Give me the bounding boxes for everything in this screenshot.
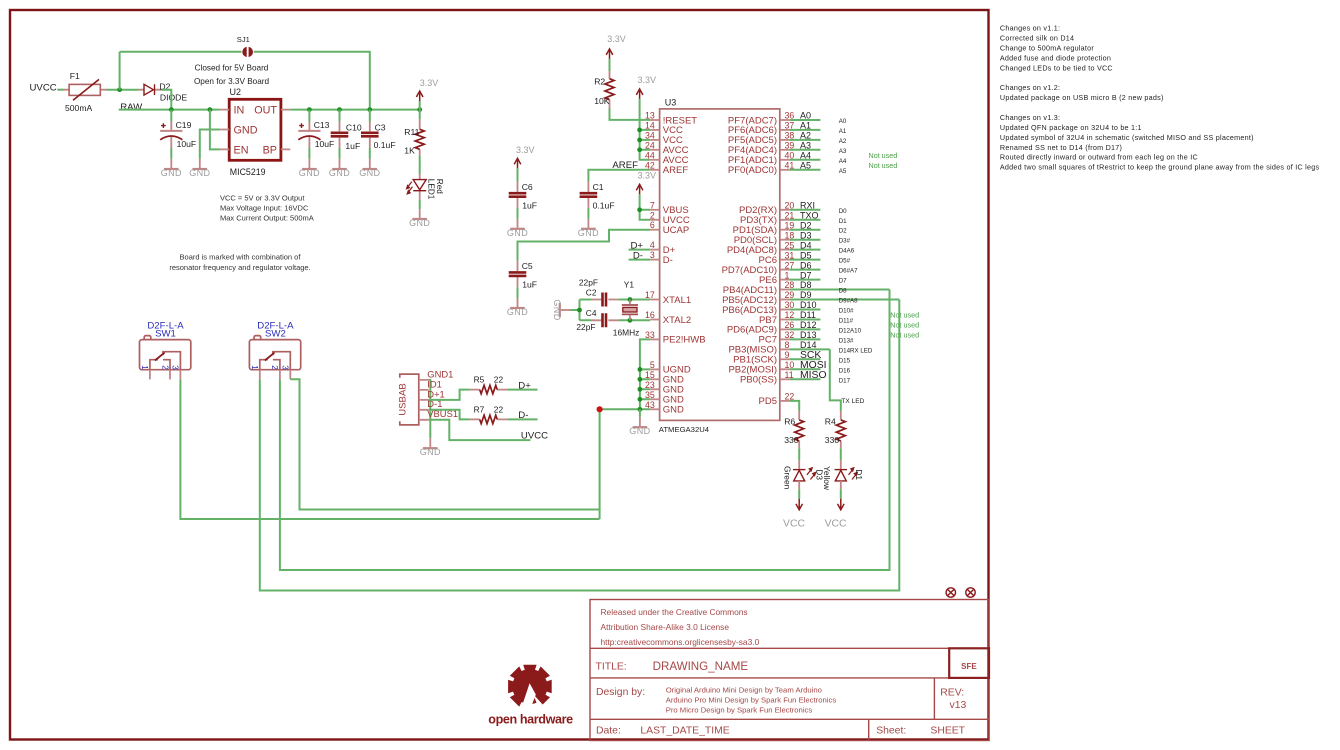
svg-text:EN: EN xyxy=(234,144,249,156)
svg-text:Original Arduino Mini Design b: Original Arduino Mini Design by Team Ard… xyxy=(666,686,822,695)
capacitor C4 stubs xyxy=(591,319,619,321)
resistor R7 stubs xyxy=(470,418,508,420)
wire VBUS1 to UVCC xyxy=(429,420,531,440)
switch SW2 lever xyxy=(265,353,275,361)
svg-text:D7: D7 xyxy=(800,270,812,280)
svg-text:v13: v13 xyxy=(950,700,967,711)
capacitor C13 plus sign xyxy=(299,123,304,128)
svg-text:D15: D15 xyxy=(839,357,851,364)
wire stubs VCC rows xyxy=(640,130,651,150)
svg-text:39: 39 xyxy=(785,141,795,151)
resistor R7 zigzag xyxy=(480,415,498,423)
svg-text:C4: C4 xyxy=(586,308,597,318)
svg-text:40: 40 xyxy=(785,151,795,161)
svg-text:D-: D- xyxy=(518,410,528,421)
svg-text:9: 9 xyxy=(785,350,790,360)
junction VBUS xyxy=(637,207,642,212)
svg-text:Renamed SS net to D14 (from D1: Renamed SS net to D14 (from D17) xyxy=(1000,143,1122,152)
resistor R6 stubs xyxy=(798,411,800,449)
wire 3.3V to VBUS/UVCC xyxy=(640,194,651,220)
svg-text:1uF: 1uF xyxy=(522,200,537,210)
capacitor C19 wires xyxy=(170,110,172,159)
resistor R11 pin stubs xyxy=(419,119,421,218)
svg-text:31: 31 xyxy=(785,250,795,260)
wire D+1 to R5 xyxy=(429,390,470,400)
U3 left pin 13 !RESET xyxy=(650,119,659,121)
U3 right pin 40 PF1(ADC1) net A4 xyxy=(780,159,790,161)
svg-text:Max Voltage Input: 16VDC: Max Voltage Input: 16VDC xyxy=(220,203,309,212)
U3 left pin 34 VCC xyxy=(650,139,659,141)
svg-text:VCC: VCC xyxy=(783,518,805,529)
junction AVCC 24 xyxy=(637,147,642,152)
LED D3 light arrows xyxy=(807,468,816,480)
U3 left pin 33 PE2!HWB xyxy=(650,338,659,340)
wire LED D3 to VCC arrow xyxy=(798,481,800,489)
U3 left pin 17 XTAL1 xyxy=(650,299,659,301)
crossed circle marker 2 xyxy=(966,588,975,597)
svg-text:D13: D13 xyxy=(800,330,817,340)
U3 left pin 5 UGND xyxy=(650,368,659,370)
svg-text:D2: D2 xyxy=(800,220,812,230)
svg-text:D17: D17 xyxy=(839,377,851,384)
ground under C5 xyxy=(507,307,528,317)
U2 pin stubs xyxy=(220,110,290,150)
svg-text:A3: A3 xyxy=(800,141,811,151)
svg-text:22pF: 22pF xyxy=(576,322,595,332)
wire SJ1 loop top left xyxy=(120,51,242,53)
U3 left pin 35 GND xyxy=(650,398,659,400)
svg-text:36: 36 xyxy=(785,111,795,121)
svg-text:3: 3 xyxy=(171,365,180,370)
svg-text:RAW: RAW xyxy=(120,102,143,113)
crystal Y1 junction bottom xyxy=(628,318,633,323)
svg-text:22pF: 22pF xyxy=(579,278,598,288)
svg-text:D4: D4 xyxy=(800,240,812,250)
wire C2 to XTAL1 xyxy=(619,299,651,301)
wire gnd to C2/C4 xyxy=(571,300,592,321)
svg-text:A0: A0 xyxy=(839,118,847,125)
USB connector body xyxy=(400,374,419,425)
svg-text:Attribution Share-Alike 3.0 Li: Attribution Share-Alike 3.0 License xyxy=(601,622,730,632)
svg-text:Arduino Pro Mini Design by Spa: Arduino Pro Mini Design by Spark Fun Ele… xyxy=(666,695,837,704)
title block divider sheet xyxy=(868,719,870,740)
crossed circle marker 1 xyxy=(946,588,955,597)
U3 left pin 3 D- xyxy=(650,259,659,261)
junction RAW/C19 xyxy=(169,107,174,112)
svg-text:U3: U3 xyxy=(665,98,677,108)
svg-text:16MHz: 16MHz xyxy=(613,327,640,337)
capacitor C19 pin stubs xyxy=(171,122,200,169)
capacitor C4 plates xyxy=(603,313,607,327)
U3 pin 22 PD5 xyxy=(780,400,790,402)
svg-text:R11: R11 xyxy=(404,127,419,137)
resistor R4 stubs xyxy=(840,411,842,449)
resistor R11 wires xyxy=(419,110,421,210)
wire R5 to D+ label xyxy=(507,389,537,391)
svg-text:16: 16 xyxy=(645,310,655,320)
svg-text:RXI: RXI xyxy=(800,201,815,211)
svg-text:U2: U2 xyxy=(230,87,242,97)
U3 right pin 27 PD7(ADC10) net D6 xyxy=(780,269,790,271)
capacitor C3 plates xyxy=(361,133,379,137)
svg-text:UVCC: UVCC xyxy=(521,431,548,442)
svg-text:3: 3 xyxy=(281,365,290,370)
svg-text:UCAP: UCAP xyxy=(663,225,689,236)
svg-text:C19: C19 xyxy=(176,120,192,130)
title block divider license/title xyxy=(590,647,989,649)
resistor R6 zigzag xyxy=(795,420,804,441)
LED1 light arrows xyxy=(407,182,413,194)
wire D+ xyxy=(629,249,651,251)
svg-text:SJ1: SJ1 xyxy=(237,35,250,44)
svg-text:Green: Green xyxy=(782,466,792,490)
svg-text:D0: D0 xyxy=(839,208,847,215)
wire F1 to D2 xyxy=(107,89,139,91)
svg-text:A1: A1 xyxy=(839,128,847,135)
capacitor C19 plus sign xyxy=(161,123,166,128)
svg-text:USBAB: USBAB xyxy=(398,383,409,416)
svg-text:XTAL2: XTAL2 xyxy=(663,315,691,326)
svg-text:C10: C10 xyxy=(346,122,362,132)
U3 right pin 11 PB0(SS) net MISO xyxy=(780,378,790,380)
svg-text:A0: A0 xyxy=(800,111,811,121)
resistor R2 pin stubs xyxy=(609,71,611,108)
capacitor C5 pin stubs xyxy=(517,261,519,307)
capacitor C10 wires xyxy=(339,110,341,159)
junction GND15 xyxy=(638,377,643,382)
svg-text:PF0(ADC0): PF0(ADC0) xyxy=(728,165,777,176)
capacitor C1 plates xyxy=(580,193,598,197)
wire SW2 pin2 long net xyxy=(280,290,890,571)
U3 left pin 15 GND xyxy=(650,378,659,380)
svg-text:Corrected silk on D14: Corrected silk on D14 xyxy=(1000,34,1074,43)
U3 left pin 16 XTAL2 xyxy=(650,319,659,321)
svg-text:10uF: 10uF xyxy=(315,139,335,149)
U3 right pin 8 PB3(MISO) net D14 xyxy=(780,348,790,350)
svg-text:330: 330 xyxy=(825,435,840,445)
ground under C10 xyxy=(329,168,350,178)
svg-text:GND: GND xyxy=(552,299,562,320)
svg-text:D-: D- xyxy=(663,255,673,266)
capacitor C5 wire xyxy=(517,287,519,298)
svg-text:D16: D16 xyxy=(839,367,851,374)
capacitor C10 plates xyxy=(331,133,349,137)
svg-text:Updated package on USB micro B: Updated package on USB micro B (2 new pa… xyxy=(1000,93,1164,102)
svg-text:8: 8 xyxy=(785,340,790,350)
svg-text:330: 330 xyxy=(784,435,799,445)
IC U3 box xyxy=(660,109,780,421)
svg-text:1uF: 1uF xyxy=(345,141,360,151)
svg-text:PD5: PD5 xyxy=(759,396,777,407)
U3 right pin 25 PD4(ADC8) net D4 xyxy=(780,249,790,251)
svg-text:D4A6: D4A6 xyxy=(839,248,855,255)
wire USB GND1 down xyxy=(429,380,431,438)
supply 3.3V arrow above R2 xyxy=(606,49,613,59)
svg-text:R7: R7 xyxy=(474,404,485,414)
svg-text:Changed LEDs to be tied to VCC: Changed LEDs to be tied to VCC xyxy=(1000,63,1113,72)
svg-text:IN: IN xyxy=(234,105,245,117)
svg-text:D8: D8 xyxy=(800,280,812,290)
supply 3.3V arrow above R11 xyxy=(416,91,423,101)
switch SW1 pin stubs xyxy=(150,370,181,380)
svg-text:Not used: Not used xyxy=(890,321,919,330)
svg-text:D3: D3 xyxy=(800,230,812,240)
svg-text:25: 25 xyxy=(785,240,795,250)
wire RAW net xyxy=(119,109,220,111)
wire SW2 pin1 long net xyxy=(260,300,900,591)
svg-text:C2: C2 xyxy=(586,287,597,297)
resistor R5 zigzag xyxy=(480,385,498,393)
svg-text:Closed for 5V Board: Closed for 5V Board xyxy=(195,63,269,72)
svg-text:5: 5 xyxy=(650,360,655,370)
supply 3.3V arrow above VCC pins xyxy=(636,89,643,99)
svg-text:11: 11 xyxy=(785,370,794,380)
svg-text:D11: D11 xyxy=(800,310,816,320)
svg-text:C6: C6 xyxy=(522,182,533,192)
svg-text:3.3V: 3.3V xyxy=(516,145,535,155)
capacitor C2 plates xyxy=(603,293,607,307)
crystal Y1 symbol xyxy=(622,305,638,314)
capacitor C5 plates xyxy=(509,272,527,276)
wire GND bus to U3 xyxy=(600,408,651,410)
svg-text:D10#: D10# xyxy=(839,308,854,315)
capacitor C6 wires xyxy=(517,168,519,219)
ground rotated left of crystal xyxy=(552,299,562,320)
svg-text:Y1: Y1 xyxy=(624,280,635,290)
svg-text:7: 7 xyxy=(650,200,655,210)
U3 left pin 14 VCC xyxy=(650,129,659,131)
capacitor C3 wires xyxy=(369,110,371,159)
svg-text:A2: A2 xyxy=(839,138,847,145)
svg-text:C1: C1 xyxy=(593,182,604,192)
svg-text:D14: D14 xyxy=(800,340,817,350)
U3 right pin 28 PB4(ADC11) net D8 xyxy=(780,289,790,291)
capacitor C6 plates xyxy=(509,193,527,197)
supply VCC arrow below D1 xyxy=(838,499,845,510)
svg-text:10: 10 xyxy=(785,360,795,370)
regulator U2 box xyxy=(229,99,281,160)
svg-text:R4: R4 xyxy=(825,417,836,427)
ground under USB xyxy=(420,447,441,457)
svg-text:D6: D6 xyxy=(800,260,812,270)
U3 right pin 36 PF7(ADC7) net A0 xyxy=(780,119,790,121)
svg-text:XTAL1: XTAL1 xyxy=(663,295,691,306)
svg-text:3: 3 xyxy=(650,250,655,260)
wire R6 to LED D3 xyxy=(798,448,800,460)
switch SW1 body xyxy=(140,336,191,370)
svg-text:Not used: Not used xyxy=(890,330,919,339)
U3 right pin 38 PF5(ADC5) net A2 xyxy=(780,139,790,141)
junction C3/SJ1 xyxy=(367,107,372,112)
svg-text:Not used: Not used xyxy=(869,161,898,170)
svg-text:OUT: OUT xyxy=(254,105,277,117)
svg-text:27: 27 xyxy=(785,260,795,270)
capacitor C13 wires xyxy=(308,110,310,159)
svg-text:Added two small squares of tRe: Added two small squares of tRestrict to … xyxy=(1000,163,1320,172)
junction UGND xyxy=(638,367,643,372)
wire UVCC to F1 xyxy=(57,89,63,91)
resistor R2 zigzag xyxy=(605,79,614,100)
resistor R5 stubs xyxy=(470,389,508,391)
svg-text:A3: A3 xyxy=(839,148,847,155)
U3 right pin 20 PD2(RX) net RXI xyxy=(780,209,790,211)
svg-text:26: 26 xyxy=(785,320,795,330)
svg-text:Changes on v1.2:: Changes on v1.2: xyxy=(1000,83,1060,92)
svg-text:28: 28 xyxy=(785,280,795,290)
LED D1 light arrows xyxy=(849,468,858,480)
svg-text:Change to 500mA regulator: Change to 500mA regulator xyxy=(1000,44,1095,53)
switch SW2 pin stubs xyxy=(260,370,291,380)
U3 left pin 24 AVCC xyxy=(650,149,659,151)
svg-text:29: 29 xyxy=(785,290,795,300)
U3 right pin 21 PD3(TX) net TXO xyxy=(780,219,790,221)
U3 right pin 37 PF6(ADC6) net A1 xyxy=(780,129,790,131)
junction R11 xyxy=(417,107,422,112)
capacitor C13 pin stubs xyxy=(308,122,310,169)
ground under LED1 xyxy=(409,218,430,228)
crystal Y1 junction top xyxy=(628,297,633,302)
svg-text:LAST_DATE_TIME: LAST_DATE_TIME xyxy=(640,726,729,737)
U3 left pin 6 UCAP xyxy=(650,229,659,231)
fuse F1 body xyxy=(69,79,100,100)
svg-text:TX LED: TX LED xyxy=(841,398,864,405)
svg-text:22: 22 xyxy=(494,404,504,414)
svg-text:3.3V: 3.3V xyxy=(607,34,626,44)
svg-text:PB0(SS): PB0(SS) xyxy=(740,375,777,386)
svg-text:D10: D10 xyxy=(800,300,817,310)
title block outer xyxy=(590,600,989,741)
svg-text:R6: R6 xyxy=(784,417,795,427)
ground under U2 GND pin xyxy=(189,168,210,178)
junction C13 xyxy=(307,107,312,112)
wire PD5 to R6 xyxy=(790,401,800,411)
wire D- xyxy=(629,259,651,261)
svg-text:18: 18 xyxy=(785,230,795,240)
supply VCC arrow below D3 xyxy=(796,499,803,510)
U3 left pin 43 GND xyxy=(650,408,659,410)
wire AREF to C1 xyxy=(588,170,650,182)
wire GND bus vertical xyxy=(599,409,601,519)
svg-text:D12: D12 xyxy=(800,320,817,330)
svg-text:PE2!HWB: PE2!HWB xyxy=(663,335,706,346)
svg-text:resonator frequency and regula: resonator frequency and regulator voltag… xyxy=(169,263,310,272)
USB pin stubs xyxy=(419,380,429,420)
U3 right pin 41 PF0(ADC0) net A5 xyxy=(780,169,790,171)
svg-text:6: 6 xyxy=(650,220,655,230)
svg-text:A5: A5 xyxy=(800,161,811,171)
svg-text:Released under the Creative Co: Released under the Creative Commons xyxy=(601,607,748,617)
U3 right pin 18 PD0(SCL) net D3 xyxy=(780,239,790,241)
svg-text:SFE: SFE xyxy=(961,662,977,671)
svg-text:12: 12 xyxy=(785,310,795,320)
U3 left pin 4 D+ xyxy=(650,249,659,251)
svg-text:AREF: AREF xyxy=(663,165,689,176)
junction GND35 xyxy=(638,397,643,402)
svg-text:open hardware: open hardware xyxy=(488,713,573,727)
junction GND23 xyxy=(638,387,643,392)
capacitor C19 top plate xyxy=(160,130,182,132)
capacitor C19 bottom arc xyxy=(160,136,182,140)
svg-text:Max Current Output: 500mA: Max Current Output: 500mA xyxy=(220,214,314,223)
svg-text:D5#: D5# xyxy=(839,258,851,265)
svg-text:MISO: MISO xyxy=(800,370,827,381)
switch SW2 body xyxy=(249,336,300,370)
svg-text:A4: A4 xyxy=(800,151,811,161)
svg-text:D+: D+ xyxy=(518,380,531,391)
svg-text:A2: A2 xyxy=(800,131,811,141)
wire R4 to LED D1 xyxy=(840,448,842,460)
diode D2 stubs xyxy=(139,89,162,91)
ground under U3 xyxy=(629,426,650,436)
resistor R11 zigzag xyxy=(415,129,424,149)
svg-text:REV:: REV: xyxy=(940,687,964,698)
svg-text:C13: C13 xyxy=(314,120,330,130)
svg-text:Red: Red xyxy=(435,179,444,194)
resistor R4 zigzag xyxy=(836,420,845,441)
svg-text:UVCC: UVCC xyxy=(30,82,57,93)
supply 3.3V arrow above VBUS xyxy=(636,184,643,194)
svg-text:ATMEGA32U4: ATMEGA32U4 xyxy=(659,425,710,434)
svg-text:500mA: 500mA xyxy=(65,103,92,113)
svg-text:TITLE:: TITLE: xyxy=(596,661,627,672)
U3 left pin 44 AVCC xyxy=(650,159,659,161)
U3 left pin 7 VBUS xyxy=(650,209,659,211)
svg-text:DRAWING_NAME: DRAWING_NAME xyxy=(653,660,749,673)
svg-text:D3#: D3# xyxy=(839,238,851,245)
SFE box xyxy=(949,648,989,678)
junction crystal gnd xyxy=(577,308,582,313)
svg-text:C5: C5 xyxy=(522,261,533,271)
svg-text:21: 21 xyxy=(785,211,795,221)
wire GND pin stubs on bus xyxy=(640,369,650,399)
junction GND43 xyxy=(638,407,643,412)
svg-text:Pro Micro Design by Spark Fun: Pro Micro Design by Spark Fun Electronic… xyxy=(666,705,813,714)
USB GND stub xyxy=(429,438,431,447)
switch SW2 contacts xyxy=(260,352,291,370)
title block divider title/design xyxy=(590,677,989,679)
svg-text:32: 32 xyxy=(785,330,795,340)
wire 3.3V to VCC/AVCC pins xyxy=(640,99,651,160)
crystal gnd stub xyxy=(561,309,571,311)
wire SJ1 loop left vertical xyxy=(119,52,121,90)
junction at F1/SJ1 xyxy=(117,87,122,92)
svg-text:BP: BP xyxy=(263,144,277,156)
U3 right pin 10 PB2(MOSI) net MOSI xyxy=(780,368,790,370)
svg-text:C3: C3 xyxy=(375,122,386,132)
svg-text:SW1: SW1 xyxy=(155,329,176,340)
svg-text:Updated symbol of 32U4 in sche: Updated symbol of 32U4 in schematic (swi… xyxy=(1000,133,1254,142)
svg-text:2: 2 xyxy=(650,210,655,220)
svg-text:D7: D7 xyxy=(839,278,847,285)
U3 right pin 19 PD1(SDA) net D2 xyxy=(780,229,790,231)
svg-text:Routed directly inward or outw: Routed directly inward or outward from e… xyxy=(1000,153,1198,162)
capacitor C13 top plate xyxy=(298,130,320,132)
LED1 symbol xyxy=(413,180,426,191)
wire PE2!HWB tied to GND bus xyxy=(640,339,650,409)
wire RAW junction down to EN pin xyxy=(210,110,220,150)
wire D2 cathode elbow to RAW net xyxy=(162,90,172,110)
U3 right pin 30 PB6(ADC13) net D10 xyxy=(780,309,790,311)
svg-text:Updated QFN package on 32U4 to: Updated QFN package on 32U4 to be 1:1 xyxy=(1000,123,1142,132)
fuse F1 pin stubs xyxy=(64,89,107,91)
svg-text:Not used: Not used xyxy=(869,151,898,160)
svg-text:38: 38 xyxy=(785,131,795,141)
wire SW2 pin3 elbow xyxy=(290,379,599,509)
wire SW1 pin3 to GND bus xyxy=(180,379,599,519)
svg-text:1: 1 xyxy=(140,365,149,370)
resistor R2 wires xyxy=(609,59,611,71)
svg-text:Date:: Date: xyxy=(596,726,621,737)
